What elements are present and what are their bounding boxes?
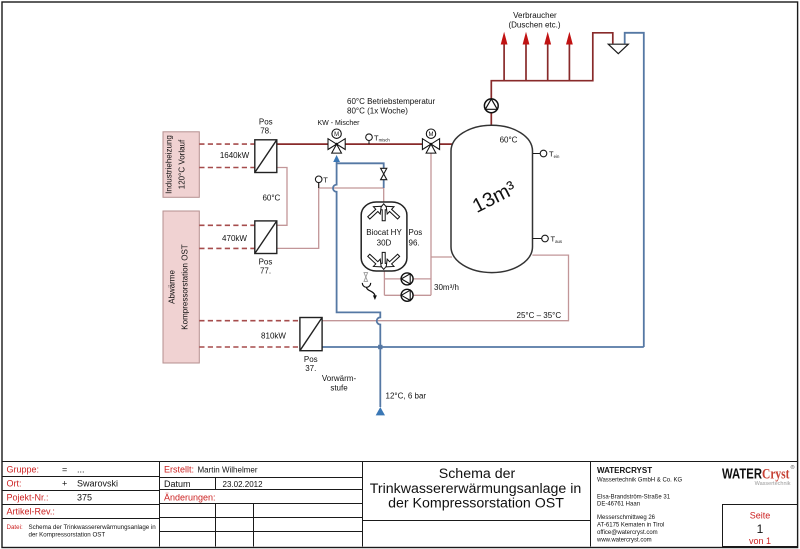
svg-text:office@watercryst.com: office@watercryst.com <box>597 530 658 536</box>
svg-text:Biocat HY: Biocat HY <box>366 228 402 237</box>
svg-text:Schema der Trinkwassererwärmun: Schema der Trinkwassererwärmungsanlage i… <box>29 524 157 531</box>
svg-text:Pos: Pos <box>259 118 273 127</box>
svg-text:23.02.2012: 23.02.2012 <box>223 480 264 489</box>
svg-text:DE-46761 Haan: DE-46761 Haan <box>597 502 640 508</box>
svg-text:60°C: 60°C <box>500 135 518 144</box>
svg-text:der Kompressorstation OST: der Kompressorstation OST <box>388 496 564 512</box>
svg-text:Schema der: Schema der <box>439 466 516 482</box>
svg-text:(Duschen etc.): (Duschen etc.) <box>508 20 560 29</box>
svg-text:120°C Vorlauf: 120°C Vorlauf <box>178 139 187 189</box>
svg-text:Datei:: Datei: <box>7 524 23 531</box>
svg-text:1640kW: 1640kW <box>220 151 250 160</box>
svg-text:Pos: Pos <box>409 228 423 237</box>
svg-text:www.watercryst.com: www.watercryst.com <box>596 538 652 544</box>
svg-text:Artikel-Rev.:: Artikel-Rev.: <box>7 507 55 517</box>
svg-text:1: 1 <box>757 522 764 536</box>
svg-text:von 1: von 1 <box>749 536 771 546</box>
svg-text:375: 375 <box>77 493 92 503</box>
svg-text:Kompressorstation OST: Kompressorstation OST <box>181 244 190 329</box>
svg-text:Ort:: Ort: <box>7 479 22 489</box>
svg-text:Änderungen:: Änderungen: <box>164 493 216 503</box>
svg-text:Abwärme: Abwärme <box>168 270 177 304</box>
svg-text:Seite: Seite <box>750 511 771 521</box>
svg-text:Industrieheizung: Industrieheizung <box>165 135 174 194</box>
svg-text:37.: 37. <box>305 364 316 373</box>
svg-text:80°C (1x Woche): 80°C (1x Woche) <box>347 107 408 116</box>
svg-text:®: ® <box>791 464 795 471</box>
svg-text:M: M <box>429 132 434 138</box>
svg-text:Trinkwassererwärmungsanlage in: Trinkwassererwärmungsanlage in <box>370 481 582 497</box>
svg-text:...: ... <box>77 465 85 475</box>
svg-text:stufe: stufe <box>330 383 348 392</box>
svg-text:Gruppe:: Gruppe: <box>7 465 40 475</box>
svg-text:Pos: Pos <box>259 258 273 267</box>
svg-text:12°C, 6 bar: 12°C, 6 bar <box>386 392 427 401</box>
svg-text:M: M <box>334 132 339 138</box>
svg-text:AT-6175 Kematen in Tirol: AT-6175 Kematen in Tirol <box>597 523 664 529</box>
svg-text:Pojekt-Nr.:: Pojekt-Nr.: <box>7 493 49 503</box>
svg-text:Vorwärm-: Vorwärm- <box>322 374 357 383</box>
svg-text:Elsa-Brandström-Straße 31: Elsa-Brandström-Straße 31 <box>597 494 671 500</box>
svg-text:470kW: 470kW <box>222 234 247 243</box>
svg-text:77.: 77. <box>260 267 271 276</box>
svg-text:Verbraucher: Verbraucher <box>513 11 557 20</box>
svg-text:T: T <box>323 175 328 184</box>
svg-text:78.: 78. <box>260 127 271 136</box>
svg-text:60°C: 60°C <box>262 193 280 202</box>
svg-text:Wassertechnik: Wassertechnik <box>755 481 791 487</box>
svg-text:Pos: Pos <box>304 355 318 364</box>
svg-text:der Kompressorstation OST: der Kompressorstation OST <box>29 532 106 539</box>
svg-text:60°C Betriebstemperatur: 60°C Betriebstemperatur <box>347 97 435 106</box>
svg-text:25°C – 35°C: 25°C – 35°C <box>517 311 562 320</box>
svg-text:Datum: Datum <box>164 479 191 489</box>
svg-text:WATERCRYST: WATERCRYST <box>597 466 652 475</box>
svg-text:Wassertechnik GmbH & Co. KG: Wassertechnik GmbH & Co. KG <box>597 478 682 484</box>
svg-text:Martin Wilhelmer: Martin Wilhelmer <box>198 465 258 474</box>
svg-text:=: = <box>62 465 67 475</box>
svg-text:Erstellt:: Erstellt: <box>164 464 194 474</box>
svg-text:KW - Mischer: KW - Mischer <box>318 120 361 127</box>
svg-text:30m³/h: 30m³/h <box>434 283 459 292</box>
svg-text:96.: 96. <box>409 239 420 248</box>
svg-text:30D: 30D <box>377 238 392 247</box>
svg-text:+: + <box>62 479 67 489</box>
svg-text:810kW: 810kW <box>261 332 286 341</box>
svg-text:Messerschmittweg 26: Messerschmittweg 26 <box>597 515 656 521</box>
svg-text:Swarovski: Swarovski <box>77 479 118 489</box>
